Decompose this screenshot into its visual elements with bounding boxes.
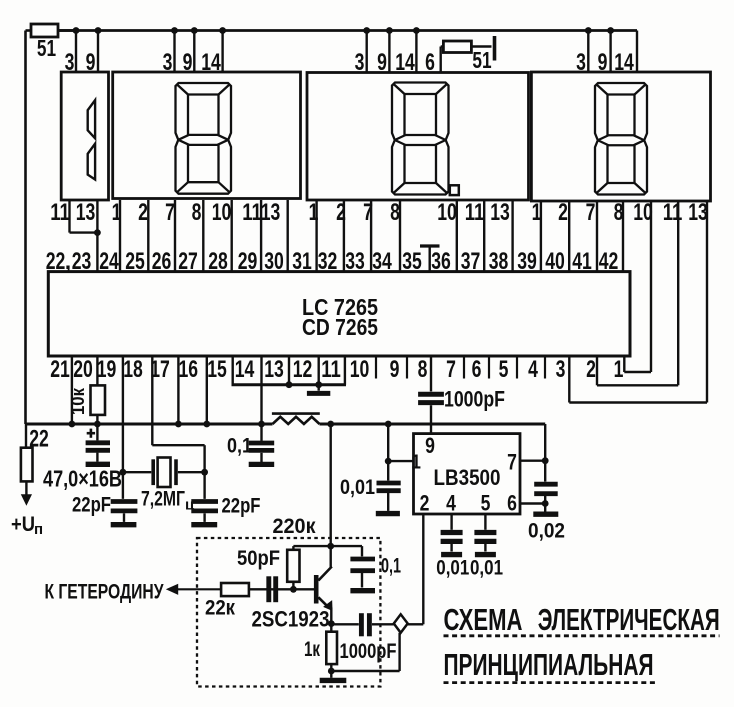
svg-text:0,1: 0,1 <box>227 435 252 458</box>
svg-text:LB3500: LB3500 <box>434 465 501 490</box>
svg-text:12: 12 <box>293 356 313 383</box>
svg-text:19: 19 <box>97 356 117 383</box>
svg-text:2: 2 <box>586 356 596 383</box>
svg-text:1к: 1к <box>304 638 320 661</box>
svg-text:7: 7 <box>446 356 456 383</box>
svg-text:СХЕМА: СХЕМА <box>444 602 523 637</box>
svg-text:8: 8 <box>418 356 428 383</box>
svg-text:16: 16 <box>179 356 199 383</box>
svg-text:ПРИНЦИПИАЛЬНАЯ: ПРИНЦИПИАЛЬНАЯ <box>444 647 654 682</box>
svg-text:11: 11 <box>321 356 341 383</box>
svg-text:5: 5 <box>499 356 509 383</box>
svg-text:51: 51 <box>37 35 56 61</box>
svg-text:11: 11 <box>242 199 262 226</box>
svg-text:9: 9 <box>390 356 400 383</box>
svg-text:22: 22 <box>29 426 49 453</box>
svg-text:7: 7 <box>165 199 175 226</box>
svg-text:7: 7 <box>363 199 373 226</box>
svg-text:1000pF: 1000pF <box>444 387 505 412</box>
svg-text:0,1: 0,1 <box>381 555 401 578</box>
svg-text:0,01: 0,01 <box>436 557 469 580</box>
svg-text:+U: +U <box>11 513 35 536</box>
svg-text:7: 7 <box>507 450 517 475</box>
svg-text:14: 14 <box>235 356 255 383</box>
svg-text:1: 1 <box>309 199 319 226</box>
svg-text:13: 13 <box>76 199 96 226</box>
svg-text:6: 6 <box>472 356 482 383</box>
svg-text:13: 13 <box>688 199 708 226</box>
svg-text:10: 10 <box>633 199 653 226</box>
svg-text:22к: 22к <box>205 597 235 620</box>
svg-text:11: 11 <box>465 199 485 226</box>
svg-text:п: п <box>34 521 43 538</box>
svg-text:CD 7265: CD 7265 <box>302 314 378 340</box>
svg-text:5: 5 <box>481 491 491 516</box>
svg-text:21: 21 <box>50 356 70 383</box>
svg-text:1: 1 <box>614 356 624 383</box>
svg-text:9: 9 <box>425 433 435 458</box>
svg-text:10к: 10к <box>67 387 88 415</box>
svg-text:8: 8 <box>192 199 202 226</box>
svg-text:2: 2 <box>558 199 568 226</box>
svg-text:22pF: 22pF <box>72 493 111 517</box>
svg-text:13: 13 <box>261 199 281 226</box>
svg-text:7: 7 <box>586 199 596 226</box>
svg-text:0,01: 0,01 <box>470 557 503 580</box>
svg-text:50pF: 50pF <box>237 547 280 570</box>
svg-text:7,2МГ: 7,2МГ <box>141 488 185 511</box>
svg-text:3: 3 <box>556 356 566 383</box>
svg-text:220к: 220к <box>273 514 316 538</box>
svg-text:18: 18 <box>123 356 143 383</box>
svg-text:1: 1 <box>532 199 542 226</box>
svg-text:ЭЛЕКТРИЧЕСКАЯ: ЭЛЕКТРИЧЕСКАЯ <box>538 602 720 637</box>
svg-text:15: 15 <box>207 356 227 383</box>
svg-text:0,01: 0,01 <box>340 476 375 499</box>
svg-text:51: 51 <box>472 47 491 73</box>
svg-text:13: 13 <box>490 199 510 226</box>
svg-text:6: 6 <box>507 491 517 516</box>
svg-text:4: 4 <box>528 356 538 383</box>
svg-text:4: 4 <box>446 491 456 516</box>
svg-text:2: 2 <box>336 199 346 226</box>
svg-text:11: 11 <box>663 199 683 226</box>
svg-text:10: 10 <box>350 356 370 383</box>
svg-text:1000pF: 1000pF <box>340 640 397 663</box>
svg-text:11: 11 <box>50 199 70 226</box>
svg-text:2: 2 <box>138 199 148 226</box>
svg-text:22pF: 22pF <box>222 494 261 518</box>
svg-text:8: 8 <box>390 199 400 226</box>
svg-text:2: 2 <box>420 491 430 516</box>
svg-text:,: , <box>65 248 71 274</box>
svg-text:0,02: 0,02 <box>528 520 565 543</box>
svg-text:1: 1 <box>112 199 122 226</box>
svg-text:10: 10 <box>212 199 232 226</box>
svg-text:2SC1923: 2SC1923 <box>252 607 330 632</box>
svg-text:13: 13 <box>264 356 284 383</box>
svg-text:К ГЕТЕРОДИНУ: К ГЕТЕРОДИНУ <box>45 580 164 604</box>
svg-text:1: 1 <box>411 452 421 474</box>
svg-text:ц: ц <box>185 497 195 514</box>
svg-text:20: 20 <box>73 356 93 383</box>
svg-text:10: 10 <box>437 199 457 226</box>
svg-text:47,0×16В: 47,0×16В <box>43 466 122 492</box>
svg-text:8: 8 <box>614 199 624 226</box>
